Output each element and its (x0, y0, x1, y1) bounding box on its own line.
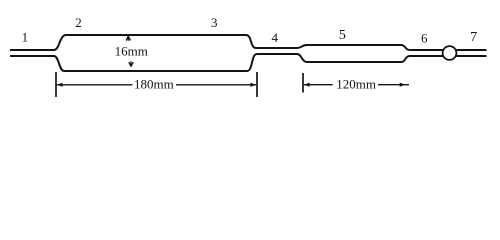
180mm right tick (256, 72, 258, 97)
tube top wall (10, 35, 487, 50)
120mm dimension line right segment (378, 84, 409, 86)
180mm dimension line right segment (176, 84, 256, 86)
180mm left arrowhead (57, 83, 63, 87)
label 4 (272, 30, 279, 45)
svg-text:6: 6 (421, 31, 428, 46)
120mm left arrowhead (304, 83, 310, 87)
180mm right arrowhead (250, 83, 256, 87)
svg-text:5: 5 (339, 28, 346, 43)
120mm right arrowhead (400, 83, 406, 87)
180mm text (134, 77, 174, 92)
svg-text:3: 3 (211, 15, 218, 30)
svg-text:7: 7 (470, 30, 477, 45)
label 2 (75, 15, 82, 30)
16mm up arrow (126, 36, 130, 41)
svg-text:1: 1 (22, 30, 29, 45)
label 5 (339, 28, 346, 43)
180mm dimension line left segment (57, 84, 133, 86)
bulb circle (443, 46, 457, 60)
svg-text:120mm: 120mm (336, 77, 376, 92)
svg-text:180mm: 180mm (134, 77, 174, 92)
16mm down arrow (129, 61, 133, 66)
120mm left tick (302, 73, 304, 93)
label 3 (211, 15, 218, 30)
tube bottom wall (10, 54, 487, 71)
label 7 (470, 30, 477, 45)
label 1 (22, 30, 29, 45)
180mm left tick (55, 72, 57, 97)
120mm text (336, 77, 376, 92)
svg-text:4: 4 (272, 30, 279, 45)
16mm text (115, 43, 148, 58)
svg-text:2: 2 (75, 15, 82, 30)
label 6 (421, 31, 428, 46)
120mm dimension line left segment (304, 84, 333, 86)
svg-text:16mm: 16mm (115, 43, 148, 58)
